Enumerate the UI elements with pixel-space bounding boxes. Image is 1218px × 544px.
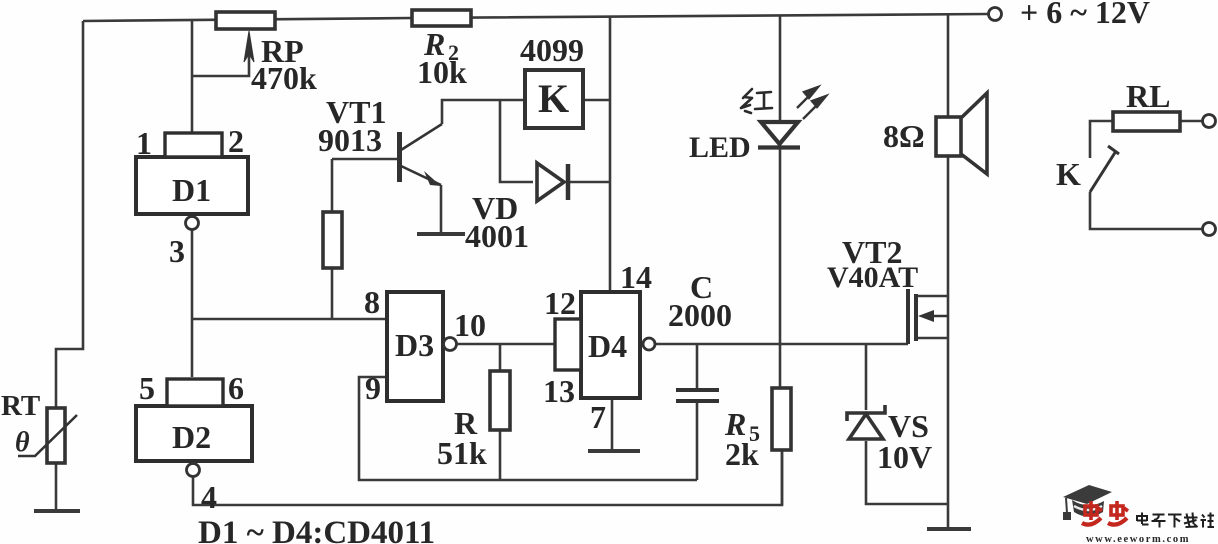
wire R 51k top	[499, 344, 502, 371]
wire top supply rail	[83, 14, 988, 21]
terminal +V circle	[989, 8, 1002, 21]
wire base resistor top	[331, 159, 334, 212]
svg-text:9: 9	[365, 370, 381, 406]
wire base resistor bottom to node A	[331, 268, 334, 319]
wire feedback D3 pin9	[359, 377, 697, 480]
svg-text:2k: 2k	[725, 436, 759, 472]
svg-text:12: 12	[544, 285, 576, 321]
svg-text:13: 13	[543, 373, 575, 409]
capacitor C 2000 plates	[676, 390, 719, 401]
wire speaker from rail	[947, 15, 950, 117]
wire RL right to terminal	[1181, 120, 1202, 123]
svg-text:1: 1	[136, 125, 152, 161]
terminal RL top circle	[1203, 115, 1216, 128]
relay coil K (4099)	[525, 70, 583, 128]
resistor R2 10k	[412, 10, 471, 26]
svg-text:51k: 51k	[437, 435, 487, 471]
svg-text:10k: 10k	[417, 54, 467, 90]
wire node A down to D2 input	[191, 319, 194, 377]
svg-text:2000: 2000	[668, 297, 732, 333]
svg-text:3: 3	[169, 233, 185, 269]
potentiometer RP wiper arrow	[244, 31, 254, 62]
svg-text:2: 2	[228, 123, 244, 159]
gate D3 body	[387, 292, 443, 401]
wire LED branch from rail	[779, 16, 782, 122]
wire node A to D3 pin8	[192, 318, 385, 321]
svg-text:LED: LED	[689, 131, 751, 164]
svg-text:D3: D3	[395, 327, 434, 363]
LED red	[758, 122, 800, 148]
svg-text:6: 6	[228, 370, 244, 406]
diode VD 4001	[537, 163, 568, 201]
wire switch bottom to terminal	[1090, 192, 1202, 229]
svg-text:D1 ~ D4:CD4011: D1 ~ D4:CD4011	[198, 515, 435, 544]
gate D2 input pin box (pins 5,6)	[167, 379, 223, 406]
gate D1 input pin box (pins 1,2)	[165, 133, 222, 157]
svg-text:D1: D1	[172, 172, 211, 208]
transistor VT2 V40AT MOSFET	[908, 289, 948, 344]
svg-text:4: 4	[201, 479, 217, 515]
svg-text:www.eeworm.com: www.eeworm.com	[1086, 534, 1190, 544]
wire RL left	[1090, 121, 1113, 158]
wire speaker to VT2 drain	[947, 156, 950, 296]
svg-text:K: K	[1056, 156, 1081, 192]
node bubble D3 output pin10	[444, 338, 457, 351]
wire D3 output to D4 input	[456, 343, 555, 346]
wire R5 bottom stub	[781, 450, 784, 505]
svg-text:8Ω: 8Ω	[883, 118, 925, 154]
watermark chars chongchong red	[1082, 501, 1128, 525]
wire D1 input from rail	[191, 20, 194, 133]
wire +V branch rail x610 to D4 pin14	[609, 17, 612, 290]
wire R 51k bottom	[499, 430, 502, 480]
svg-text:8: 8	[364, 284, 380, 320]
LED light arrows	[797, 87, 826, 119]
wire RT bottom to ground	[55, 463, 58, 510]
svg-text:D2: D2	[172, 419, 211, 455]
wire VD anode riser	[500, 100, 533, 182]
wire VD cathode to rail	[568, 181, 610, 184]
resistor R 51k	[490, 371, 510, 430]
svg-text:K: K	[538, 76, 569, 121]
switch K blade	[1090, 146, 1119, 192]
thermistor RT diagonal stroke	[18, 415, 77, 456]
wire left column to RT	[56, 21, 83, 409]
wire D2 output pin4 to bottom rail	[193, 450, 782, 505]
ground RT	[34, 509, 80, 513]
wire LED cathode down through gate node to R5	[779, 148, 782, 388]
terminal RL bottom circle	[1203, 223, 1216, 236]
svg-text:4099: 4099	[520, 32, 584, 68]
wire D1 output to node A	[191, 230, 194, 319]
speaker 8ohm	[936, 93, 987, 174]
resistor RL (relay load)	[1113, 112, 1180, 131]
wire VT1 collector riser	[442, 100, 524, 124]
wire VT2 source rail to ground	[947, 296, 950, 528]
wire VS zener top	[865, 344, 868, 410]
svg-text:9013: 9013	[318, 122, 382, 158]
svg-text:D4: D4	[588, 328, 627, 364]
svg-text:7: 7	[590, 399, 606, 435]
svg-text:5: 5	[139, 370, 155, 406]
svg-text:RL: RL	[1126, 78, 1170, 114]
wire VT2 drain stub	[918, 295, 948, 298]
wire gate line D4 output to VT2	[655, 343, 908, 346]
node bubble D4 output pin11	[643, 338, 655, 350]
svg-text:470k: 470k	[251, 60, 317, 96]
transistor VT1 9013	[400, 124, 443, 186]
svg-text:4001: 4001	[465, 218, 529, 254]
resistor base of VT1	[323, 212, 342, 268]
wire RP wiper	[192, 40, 249, 76]
svg-text:θ: θ	[15, 427, 30, 458]
wire VT1 base	[332, 158, 397, 161]
label red Chinese char hong	[741, 89, 772, 113]
wire C2000 top	[696, 344, 699, 388]
svg-text:10V: 10V	[877, 439, 932, 475]
resistor RP 470k (potentiometer body)	[216, 12, 275, 29]
watermark logo cap	[1063, 485, 1112, 520]
node bubble D2 output pin4	[187, 464, 200, 477]
wire K coil right to +V rail	[584, 99, 610, 102]
node bubble D1 output pin3	[186, 217, 199, 230]
gate D2 body	[136, 406, 252, 461]
svg-text:14: 14	[620, 259, 652, 295]
svg-text:RT: RT	[1, 390, 40, 422]
wire C2000 bottom to feedback	[696, 403, 699, 480]
svg-text:+ 6 ~ 12V: + 6 ~ 12V	[1020, 0, 1150, 30]
thermistor RT body	[47, 408, 65, 463]
ground D4 pin7	[588, 449, 640, 453]
wire VT2 source stub	[918, 337, 948, 340]
ground main	[927, 527, 971, 531]
svg-text:V40AT: V40AT	[827, 261, 918, 294]
watermark text dianzi xiazaizhan	[1137, 513, 1214, 528]
gate D1 body	[136, 157, 248, 214]
zener diode VS 10V	[847, 405, 885, 439]
resistor R5 2k	[772, 388, 791, 450]
wire D4 pin7 to ground	[611, 399, 614, 449]
svg-text:10: 10	[454, 307, 486, 343]
wire VT1 emitter down	[440, 185, 443, 233]
wire VS zener bottom to source rail	[866, 441, 948, 504]
ground VT1 emitter	[417, 232, 465, 236]
gate D4 body	[581, 292, 640, 398]
gate D4 input pin box (pins 12,13)	[555, 319, 581, 370]
